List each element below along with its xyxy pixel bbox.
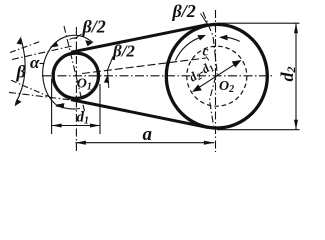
arrowhead alpha arc top	[85, 40, 94, 46]
arrowhead d2-d1 lower	[192, 84, 202, 92]
arrowhead a left	[75, 141, 86, 145]
arrowhead a right	[204, 141, 215, 145]
arrowhead beta arc top	[17, 36, 22, 44]
pulley big O2	[166, 24, 267, 128]
arc alpha wrap angle	[43, 35, 92, 105]
wire lower-left fan line steep	[11, 80, 50, 97]
arrowhead d2 top	[294, 23, 298, 33]
wire leader beta/2 top big	[201, 14, 209, 26]
wire d2 extension top	[217, 22, 300, 24]
wire vertical centerline big pulley	[215, 10, 217, 152]
svg-text:a: a	[143, 124, 153, 145]
arrowhead rotation small bottom	[56, 103, 65, 108]
belt top	[71, 25, 207, 53]
belt bottom	[71, 100, 208, 128]
arrowhead big arc left	[197, 35, 206, 41]
svg-text:β/2: β/2	[172, 1, 196, 21]
wire d2-d1 diameter arrow line	[194, 61, 241, 91]
arc beta/2 at O1 for line c	[108, 57, 114, 89]
wire lower-left belt extension	[9, 92, 70, 99]
wire horizontal centerline O1-O2	[42, 75, 274, 77]
wire a dimension line	[75, 142, 214, 144]
svg-text:β/2: β/2	[82, 17, 106, 37]
arrowhead d1 right	[90, 124, 100, 128]
arrowhead on upper-left line	[50, 41, 59, 47]
arrowhead alpha arc bottom	[55, 103, 64, 108]
wire d1 extension right	[99, 84, 101, 134]
wire leader beta/2 small top	[75, 34, 82, 39]
wire d1 dimension line	[52, 125, 100, 127]
wire d2 dimension line	[295, 23, 297, 130]
arc arrow big pulley left	[176, 36, 205, 60]
arrowhead big arc right	[219, 35, 228, 41]
arrowhead beta arc bottom	[15, 99, 22, 106]
arrowhead beta2 mid arc	[104, 75, 109, 83]
wire vertical centerline small pulley	[75, 27, 77, 151]
wire line c from O1	[82, 58, 206, 74]
wire d1 extension left	[51, 79, 53, 134]
wire d2 extension bottom	[217, 129, 300, 131]
arrowhead d2-d1 upper	[232, 60, 242, 68]
wire tilted radius line small pulley	[64, 26, 85, 111]
svg-text:β/2: β/2	[112, 42, 135, 61]
wire upper-left belt extension	[12, 46, 72, 60]
arc beta/2 small at small pulley top	[69, 38, 77, 40]
wire upper-left fan line steep	[10, 42, 40, 53]
arc beta between belt sides	[16, 39, 26, 104]
wire leader c	[206, 57, 209, 61]
wire leader alpha	[40, 63, 45, 65]
arc arrow big pulley right	[221, 37, 240, 42]
arrowhead d2 bottom	[294, 120, 298, 130]
arrowhead d1 left	[52, 124, 62, 128]
circle aux dashed (d2-d1)/2	[187, 46, 247, 106]
arc rotation arrow small pulley bottom	[57, 105, 80, 109]
svg-text:c: c	[203, 44, 209, 59]
wire tilted radius line big pulley lower	[210, 76, 216, 125]
wire tilted radius line big pulley upper	[203, 12, 218, 76]
pulley small O1	[53, 53, 98, 98]
svg-text:β: β	[16, 62, 27, 82]
svg-text:α: α	[30, 53, 40, 72]
